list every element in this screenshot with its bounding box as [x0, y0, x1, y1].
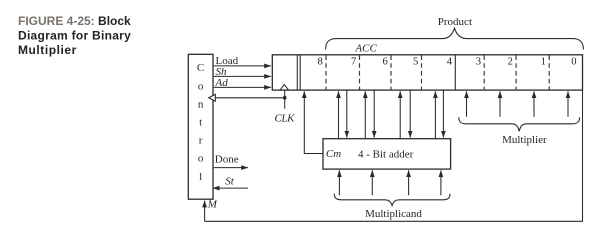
svg-text:Multiplier: Multiplier — [18, 43, 77, 57]
svg-text:o: o — [198, 153, 204, 165]
svg-text:o: o — [198, 80, 204, 92]
svg-text:ACC: ACC — [354, 42, 377, 54]
svg-text:4: 4 — [447, 57, 453, 68]
svg-text:Diagram for Binary: Diagram for Binary — [18, 29, 131, 43]
svg-text:0: 0 — [571, 57, 576, 68]
svg-text:FIGURE 4-25: Block: FIGURE 4-25: Block — [18, 14, 131, 28]
svg-text:Multiplier: Multiplier — [502, 134, 547, 146]
svg-text:2: 2 — [508, 57, 513, 68]
svg-text:Done: Done — [215, 154, 239, 166]
svg-text:CLK: CLK — [275, 112, 296, 124]
svg-text:M: M — [207, 199, 218, 211]
svg-text:t: t — [199, 117, 202, 129]
svg-text:5: 5 — [413, 57, 418, 68]
svg-text:6: 6 — [383, 57, 388, 68]
svg-text:4 - Bit adder: 4 - Bit adder — [358, 148, 414, 160]
svg-text:r: r — [199, 135, 203, 147]
svg-text:C: C — [197, 62, 204, 74]
svg-text:Product: Product — [438, 16, 472, 28]
svg-text:8: 8 — [318, 57, 323, 68]
svg-text:Multiplicand: Multiplicand — [365, 208, 422, 220]
svg-text:l: l — [199, 171, 202, 183]
svg-text:Ad: Ad — [215, 77, 229, 89]
svg-text:St: St — [225, 175, 235, 187]
svg-text:n: n — [198, 98, 204, 110]
svg-text:1: 1 — [541, 57, 546, 68]
svg-text:3: 3 — [476, 57, 481, 68]
svg-text:Cm: Cm — [326, 148, 341, 160]
svg-text:7: 7 — [351, 57, 356, 68]
